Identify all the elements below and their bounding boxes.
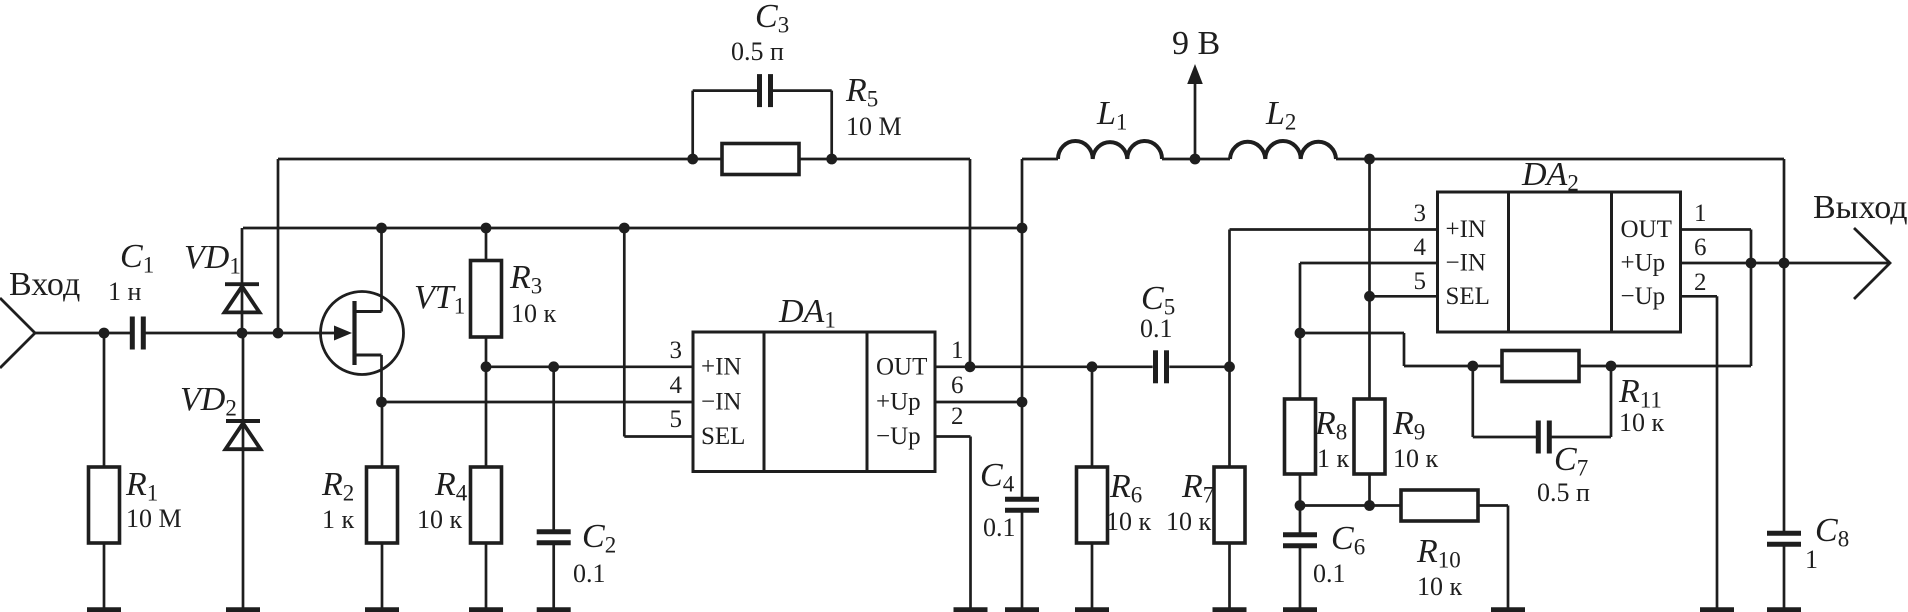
svg-text:−Up: −Up [1621, 283, 1666, 310]
wire R3 top [485, 228, 488, 261]
wire R8 bottom [1299, 474, 1302, 506]
wire +IN row DA1 [486, 365, 693, 368]
svg-text:10 к: 10 к [1619, 408, 1665, 437]
capacitor C8 [1767, 531, 1801, 536]
resistor R5 [722, 144, 799, 175]
junction R8/C6/R10 [1295, 500, 1306, 511]
wire output rail drop [1783, 159, 1786, 533]
op-amp DA1 box [693, 332, 935, 472]
DA2 left divider [1507, 192, 1510, 332]
wire OUT drop to R11 [1750, 230, 1753, 367]
wire 9V arrow stem [1194, 80, 1197, 159]
svg-text:OUT: OUT [876, 354, 927, 381]
junction SEL drop on 9V rail [619, 223, 630, 234]
capacitor C2 [537, 529, 571, 534]
wire R4 top [485, 367, 488, 467]
wire OUT row DA1 to C5 [935, 365, 1153, 368]
wire feedback riser to OUT [969, 159, 972, 367]
wire -Up row DA1 [935, 435, 971, 438]
wire top rail left [278, 158, 722, 161]
wire R6 top [1091, 367, 1094, 467]
wire 9V riser corner [1022, 158, 1058, 161]
svg-text:4: 4 [670, 372, 683, 399]
svg-text:+Up: +Up [876, 389, 921, 416]
svg-text:10 к: 10 к [511, 299, 557, 328]
junction R11 right [1606, 361, 1617, 372]
wire input to C1 [35, 332, 130, 335]
wire VD1 cathode to 9V rail [241, 228, 244, 333]
junction feedback on OUT [965, 361, 976, 372]
wire SEL drop [623, 228, 626, 437]
wire C5 to R7 node [1169, 365, 1229, 368]
transistor VT1 circle [321, 292, 404, 375]
resistor R1 [89, 467, 120, 543]
svg-text:10 к: 10 к [1166, 507, 1212, 536]
inductor L2 [1230, 141, 1336, 159]
wire C3 left riser [691, 91, 694, 159]
svg-text:9 В: 9 В [1172, 25, 1220, 62]
wire feedback drop to gate node [277, 159, 280, 333]
resistor R7 [1214, 467, 1245, 543]
junction +Up to supply riser [1017, 397, 1028, 408]
wire R9 bottom [1368, 474, 1371, 506]
ground R6 [1091, 543, 1094, 608]
svg-text:2: 2 [951, 403, 964, 430]
ground R7 [1228, 543, 1231, 608]
svg-text:1: 1 [1805, 545, 1818, 574]
junction R7/C5/+IN2 [1224, 361, 1235, 372]
resistor R6 [1077, 467, 1108, 543]
wire C1 to gate [146, 332, 341, 335]
wire +Up row DA2 to output [1681, 262, 1889, 265]
capacitor C3 [757, 74, 762, 107]
transistor VT1 channel bar [352, 301, 356, 365]
svg-text:3: 3 [670, 337, 683, 364]
svg-text:−IN: −IN [701, 389, 741, 416]
wire VT1 source down [380, 355, 383, 402]
svg-text:3: 3 [1414, 200, 1427, 227]
capacitor C4 [1005, 497, 1039, 502]
wire R8 node to R10 [1300, 504, 1401, 507]
resistor R4 [471, 467, 502, 543]
wire C3 right riser [830, 91, 833, 159]
capacitor C7 [1536, 421, 1541, 454]
junction drain on 9V rail [376, 223, 387, 234]
wire R7 node to DA2 +IN riser [1228, 230, 1231, 367]
svg-text:SEL: SEL [1446, 283, 1490, 310]
svg-text:1 н: 1 н [108, 277, 142, 306]
wire +IN row DA2 [1230, 228, 1438, 231]
wire C7 bottom left [1473, 436, 1538, 439]
ground DA2 -Up [1716, 296, 1719, 608]
diode VD2 [226, 419, 260, 423]
junction R6 on OUT [1087, 361, 1098, 372]
svg-text:6: 6 [1694, 234, 1707, 261]
wire R11 to OUT drop [1579, 365, 1751, 368]
ground C2 [552, 543, 555, 608]
wire C7 bottom right [1550, 436, 1612, 439]
svg-text:0.1: 0.1 [983, 513, 1016, 542]
transistor VT1 gate arrow [334, 326, 352, 341]
ground R10 [1507, 506, 1510, 609]
ground C4 [1021, 510, 1024, 608]
svg-text:OUT: OUT [1621, 216, 1672, 243]
wire -IN row DA2 [1300, 262, 1438, 265]
svg-text:6: 6 [951, 372, 964, 399]
junction C3 left [687, 154, 698, 165]
wire supply riser x1022 [1021, 159, 1024, 499]
transistor VT1 source stub [353, 354, 382, 357]
svg-text:2: 2 [1694, 269, 1707, 296]
wire C6 top [1299, 506, 1302, 536]
junction R5 right [826, 154, 837, 165]
svg-text:Выход: Выход [1813, 189, 1908, 226]
wire R9 riser [1368, 159, 1371, 399]
junction R8/-IN/R11 link [1295, 328, 1306, 339]
ground R1 [103, 543, 106, 608]
wire -IN riser DA2 [1299, 263, 1302, 399]
svg-text:SEL: SEL [701, 423, 745, 450]
svg-text:−IN: −IN [1446, 250, 1486, 277]
wire SEL row DA1 [624, 435, 693, 438]
resistor R8 [1285, 399, 1316, 474]
junction R3 on 9V rail [481, 223, 492, 234]
wire R1 top [103, 333, 106, 467]
svg-text:0.1: 0.1 [1140, 314, 1173, 343]
svg-text:1: 1 [951, 337, 964, 364]
junction 9V rail to supply riser [1017, 223, 1028, 234]
ground R4 [485, 543, 488, 608]
svg-text:+IN: +IN [1446, 216, 1486, 243]
wire C3 top left [693, 89, 760, 92]
svg-text:1: 1 [1694, 200, 1707, 227]
diode VD1 [225, 282, 259, 286]
wire +Up row DA1 [935, 401, 1022, 404]
svg-text:+IN: +IN [701, 354, 741, 381]
DA2 right divider [1610, 192, 1613, 332]
wire -IN row DA1 [382, 401, 694, 404]
svg-text:10 к: 10 к [1417, 572, 1463, 601]
svg-text:1 к: 1 к [1317, 444, 1350, 473]
wire R7 top [1228, 367, 1231, 467]
wire link to R11 [1404, 365, 1502, 368]
resistor R9 [1354, 399, 1385, 474]
resistor R2 [367, 467, 398, 543]
junction R9 riser on top rail [1364, 154, 1375, 165]
junction R9/R10 [1364, 500, 1375, 511]
wire SEL row DA2 [1370, 295, 1438, 298]
svg-text:10 к: 10 к [1106, 507, 1152, 536]
junction OUT drop on +Up [1746, 258, 1757, 269]
svg-text:0.5 п: 0.5 п [1537, 478, 1590, 507]
wire R3 bottom to +IN node [485, 337, 488, 367]
DA1 right divider [866, 332, 869, 472]
junction output rail on +Up [1779, 258, 1790, 269]
wire R8 node to R11 link [1300, 332, 1404, 335]
wire VT1 drain to 9V rail [380, 228, 383, 312]
wire OUT row DA2 [1681, 228, 1752, 231]
junction feedback/gate node [273, 328, 284, 339]
capacitor C5 [1153, 350, 1158, 383]
input terminal arrow (Вход) [0, 298, 35, 368]
wire input to VD2 cathode [242, 333, 245, 451]
ground DA1 -Up [969, 437, 972, 609]
svg-text:10 М: 10 М [126, 504, 182, 533]
wire +9V distribution rail [243, 227, 1022, 230]
wire L2 to output rail [1336, 158, 1784, 161]
wire R2 top [381, 402, 384, 467]
junction R3/R4/+IN [481, 361, 492, 372]
svg-text:0.1: 0.1 [573, 559, 606, 588]
svg-text:0.1: 0.1 [1313, 559, 1346, 588]
output terminal arrow (Выход) [1854, 228, 1890, 299]
wire L1 to 9V tap [1162, 158, 1230, 161]
svg-text:−Up: −Up [876, 423, 921, 450]
inductor L1 [1058, 141, 1162, 159]
junction C2 on +IN row [548, 361, 559, 372]
resistor R3 [471, 261, 502, 338]
capacitor C6 [1283, 532, 1317, 537]
svg-text:5: 5 [1414, 268, 1427, 295]
svg-text:+Up: +Up [1621, 250, 1666, 277]
svg-text:1 к: 1 к [322, 505, 355, 534]
junction SEL/R9 [1364, 291, 1375, 302]
svg-text:10 к: 10 к [417, 505, 463, 534]
svg-text:5: 5 [670, 406, 683, 433]
ground C6 [1299, 545, 1302, 608]
resistor R11 [1502, 351, 1579, 382]
wire -Up row DA2 [1681, 295, 1718, 298]
svg-text:0.5 п: 0.5 п [731, 37, 784, 66]
transistor VT1 drain stub [353, 310, 382, 313]
svg-text:Вход: Вход [9, 266, 80, 303]
svg-text:10 М: 10 М [846, 112, 902, 141]
wire C3 top right [771, 89, 832, 92]
DA1 left divider [763, 332, 766, 472]
wire R10 right [1478, 504, 1508, 507]
ground R2 [381, 543, 384, 608]
junction input/R1 [99, 328, 110, 339]
op-amp DA2 box [1438, 192, 1681, 332]
capacitor C1 [130, 317, 135, 350]
ground C8 [1783, 544, 1786, 608]
ground VD2 [242, 449, 245, 608]
9V arrowhead [1187, 64, 1203, 84]
wire R11 link drop [1403, 333, 1406, 366]
junction 9V supply tap [1190, 154, 1201, 165]
junction VD anode node [237, 328, 248, 339]
svg-text:10 к: 10 к [1393, 444, 1439, 473]
wire C7 right riser [1610, 366, 1613, 437]
wire R5 to OUT riser [799, 158, 970, 161]
resistor R10 [1401, 490, 1478, 521]
junction R11 left [1467, 361, 1478, 372]
svg-text:4: 4 [1414, 234, 1427, 261]
junction source/-IN/R2 [376, 397, 387, 408]
wire C2 top [552, 367, 555, 532]
wire C7 left riser [1471, 366, 1474, 437]
